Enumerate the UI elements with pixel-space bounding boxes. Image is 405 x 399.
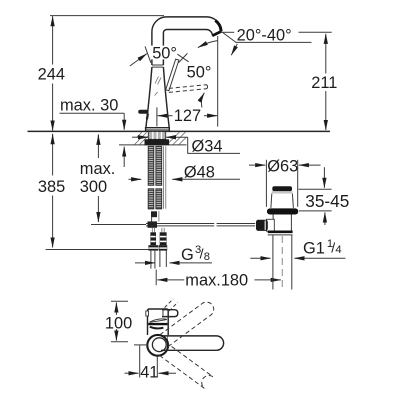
svg-text:127: 127 xyxy=(174,107,201,125)
svg-text:max.: max. xyxy=(80,160,116,178)
svg-text:50°: 50° xyxy=(187,64,212,82)
svg-text:Ø63: Ø63 xyxy=(267,158,298,176)
svg-text:300: 300 xyxy=(80,178,107,196)
svg-text:Ø34: Ø34 xyxy=(192,138,223,156)
svg-text:35-45: 35-45 xyxy=(305,191,349,211)
svg-text:50°: 50° xyxy=(152,44,177,62)
svg-text:8: 8 xyxy=(204,251,210,263)
svg-text:41: 41 xyxy=(140,364,158,382)
svg-text:385: 385 xyxy=(38,178,65,196)
svg-text:max. 30: max. 30 xyxy=(60,97,118,115)
svg-text:G: G xyxy=(181,246,194,264)
svg-text:Ø48: Ø48 xyxy=(184,164,215,182)
svg-text:4: 4 xyxy=(335,244,341,256)
svg-text:244: 244 xyxy=(38,66,65,84)
svg-text:211: 211 xyxy=(311,74,337,92)
svg-text:G1: G1 xyxy=(303,240,325,258)
svg-text:max.180: max.180 xyxy=(185,271,248,289)
svg-text:100: 100 xyxy=(105,315,132,333)
